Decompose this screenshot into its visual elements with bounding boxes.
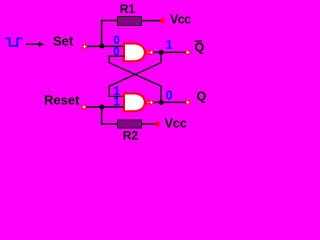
svg-text:R1: R1 [120, 2, 136, 16]
op: NAND gate U1 [124, 44, 149, 62]
wire feedback Qbar to U2 input [109, 52, 161, 96]
wire U1 output to Qbar [150, 51, 186, 53]
terminal Qbar [185, 50, 190, 55]
svg-text:0: 0 [113, 35, 119, 47]
node Vcc top (red dot) [160, 18, 165, 23]
node Qbar junction [159, 50, 164, 55]
node Reset junction [100, 104, 105, 109]
terminal Set [82, 44, 87, 49]
label Qbar [195, 40, 205, 54]
terminal Reset [81, 104, 86, 109]
pin marker U2 output [148, 100, 154, 106]
pin marker U1 output [148, 50, 154, 56]
node Set junction [100, 44, 105, 49]
svg-text:Q: Q [195, 41, 205, 55]
wire U2 output to Q [150, 101, 186, 103]
svg-text:R2: R2 [123, 128, 139, 142]
resistor R1 [118, 17, 142, 26]
terminal Q [185, 100, 190, 105]
op: NAND gate U2 [124, 94, 149, 112]
wire feedback Q to U1 input [109, 56, 161, 102]
wire Reset node down to R2 [102, 107, 118, 124]
wire R1 to Vcc [142, 20, 161, 22]
svg-text:Set: Set [53, 34, 74, 49]
svg-text:Vcc: Vcc [170, 12, 191, 26]
arrow [26, 42, 44, 47]
svg-text:Vcc: Vcc [165, 117, 187, 131]
svg-text:1: 1 [166, 38, 173, 52]
node Vcc bottom (red dot) [155, 122, 160, 127]
svg-text:Q: Q [197, 90, 207, 104]
wire Set to gate U1 [87, 45, 124, 47]
input pulse waveform [5, 38, 22, 46]
resistor R2 [118, 120, 142, 128]
svg-text:0: 0 [166, 89, 173, 103]
svg-text:Reset: Reset [44, 92, 80, 107]
wire R2 to Vcc [142, 123, 155, 125]
wire Set node up to R1 [102, 21, 118, 47]
wire Reset to gate U2 [87, 106, 124, 108]
node Q junction [159, 100, 164, 105]
